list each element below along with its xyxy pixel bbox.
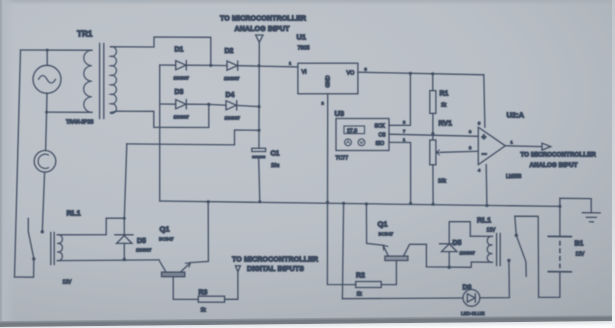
wire C1 bottom lead [259,159,260,202]
svg-text:DIGITAL INPUTS: DIGITAL INPUTS [247,266,304,273]
svg-text:ANALOG INPUT: ANALOG INPUT [530,162,578,169]
svg-text:Q1: Q1 [378,220,388,229]
wire main ground rail [160,201,560,206]
svg-text:D5: D5 [137,238,146,245]
svg-text:TO MICROCONTROLLER: TO MICROCONTROLLER [220,16,306,23]
node rail C1 [258,200,261,203]
potentiometer RV1 [430,121,479,205]
svg-text:1N4007: 1N4007 [174,115,190,120]
node D5 right anode junction [448,266,451,269]
svg-text:8: 8 [478,121,481,126]
diode D4 [209,92,259,121]
diode D1 [160,47,211,81]
node SCK rail junction [409,72,412,75]
svg-text:1N4007: 1N4007 [136,248,152,253]
sensor U3 TC77 [335,109,407,162]
svg-text:D4: D4 [226,92,235,99]
node C1 top junction [257,129,260,132]
svg-text:D2: D2 [225,48,234,55]
wire AC source top stub [46,50,48,65]
svg-text:SCK: SCK [375,124,386,130]
svg-text:1N4007: 1N4007 [225,116,241,121]
wire CT lower lead [42,172,44,232]
resistor R1 [430,74,449,134]
svg-text:1k: 1k [441,103,447,109]
svg-text:Q1: Q1 [160,225,170,234]
wire CT upper lead [46,112,47,151]
svg-text:RL1: RL1 [67,209,81,218]
svg-text:2: 2 [322,101,325,106]
node contact bottom [32,257,35,260]
svg-text:+: + [482,133,487,142]
svg-text:1k: 1k [201,308,207,314]
wire D6 bottom run [342,297,463,300]
svg-text:12V: 12V [63,280,73,286]
svg-text:U2:A: U2:A [507,111,525,120]
svg-text:R1: R1 [440,91,449,98]
node bridge plus bottom [257,105,260,108]
node rail emitter left [207,200,210,203]
terminal to microcontroller analog input (top) [256,35,263,42]
wire +5V rail [358,72,484,75]
svg-text:TO MICROCONTROLLER: TO MICROCONTROLLER [521,152,597,159]
svg-text:VO: VO [347,71,355,77]
relay contact blade (RL1 pole, open) [28,218,34,259]
svg-text:RL1: RL1 [477,216,491,225]
transformer TR1 primary winding [84,50,92,112]
wire bridge left vertical [159,65,161,201]
battery B1 [548,198,585,271]
resistor R3 [198,272,238,314]
svg-text:RV1: RV1 [439,121,453,128]
wire AC source bottom stub [46,93,48,112]
terminal to microcontroller digital inputs [235,266,240,272]
wire LED to switch [480,260,510,298]
wire U3 SCK to +5V [389,73,410,125]
svg-text:ANALOG INPUT: ANALOG INPUT [235,26,291,33]
svg-text:3: 3 [365,67,368,72]
node AC top junction [46,49,49,52]
capacitor C1 [252,148,280,169]
svg-text:CS: CS [379,132,387,138]
svg-text:D1: D1 [175,47,184,54]
transistor Q1 (left) [159,202,209,300]
relay RL1 right coil [470,216,500,266]
svg-text:10k: 10k [438,179,447,185]
svg-text:4: 4 [478,168,481,173]
wire relay supply vertical [124,144,127,235]
diode D2 [211,48,298,81]
svg-text:GND: GND [326,75,332,87]
ground [582,213,600,222]
svg-text:1k: 1k [357,292,363,298]
svg-text:C1: C1 [271,151,280,158]
node D3-D4 junction [207,103,210,106]
wire lower branch vertical [342,203,343,298]
svg-text:1N4007: 1N4007 [174,76,190,81]
wire contact bottom U-route [15,259,34,277]
transistor Q1 (right) [366,204,492,285]
svg-text:TR1: TR1 [77,30,93,39]
wire AC left return [15,50,21,277]
wire AC top [21,49,93,51]
svg-text:BC547: BC547 [379,232,394,238]
wire AC bottom to primary [47,111,92,113]
svg-text:7805: 7805 [298,46,310,52]
node D5 top tee [123,217,126,220]
svg-text:1: 1 [511,140,514,145]
regulator U1 7805 [289,33,368,106]
node rail opamp V- [485,204,488,207]
svg-text:R3: R3 [199,290,208,297]
node bridge plus top [257,64,260,67]
svg-text:VI: VI [302,70,307,76]
node AC bottom junction [45,111,48,114]
svg-text:TC77: TC77 [336,156,349,162]
wire secondary top staircase [111,37,211,65]
wire U1 GND down [327,94,329,203]
wire secondary bottom staircase [111,104,209,127]
svg-text:27.0: 27.0 [347,128,357,134]
svg-text:D5: D5 [453,240,462,247]
svg-text:U3: U3 [335,109,345,118]
wire C1 top lead [258,130,260,148]
svg-text:R2: R2 [356,273,365,280]
diode D5 (right flyback) [440,222,476,268]
node R1-RV1-CS junction [431,132,434,135]
node rail B1 [558,205,561,208]
svg-text:U1: U1 [297,33,307,42]
svg-text:12V: 12V [487,228,497,234]
svg-text:2: 2 [403,120,406,125]
svg-text:TO MICROCONTROLLER: TO MICROCONTROLLER [232,257,318,264]
svg-text:LM358: LM358 [506,174,522,180]
svg-text:−: − [482,149,487,159]
svg-text:D3: D3 [175,89,184,96]
AC source V1 [33,65,61,93]
wire opamp V- stub [485,165,488,206]
diode D3 [160,89,209,120]
node switch bottom contact [507,259,510,262]
node rail RV1 [432,203,435,206]
switch blade (right, open) [516,235,526,276]
svg-text:SIO: SIO [376,141,385,147]
relay RL1 left coil [51,209,159,286]
node D5 anode junction [123,258,126,261]
wire switch frame [515,216,560,297]
svg-text:2: 2 [469,145,472,150]
svg-text:1: 1 [403,137,406,142]
wire bridge plus vertical [258,42,260,130]
svg-text:12V: 12V [576,252,586,258]
svg-text:B1: B1 [575,241,584,248]
transformer TR1 core [99,44,101,119]
svg-text:7: 7 [403,129,406,134]
node rail U1 GND [326,201,329,204]
svg-text:1: 1 [289,61,292,66]
wire opamp V+ stub [484,75,485,127]
svg-text:D6: D6 [463,285,472,292]
transformer TR1 secondary winding [111,47,117,114]
wire B1 to ground branch [560,198,591,212]
wire U3 SIO to ground rail [389,142,411,203]
resistor R2 [327,202,381,297]
LED D6 [461,285,484,318]
wire U3 CS to opamp [389,134,478,136]
node D1-D2 junction [209,64,212,67]
svg-text:TRAN-2P2S: TRAN-2P2S [66,120,94,126]
svg-text:1N4007: 1N4007 [460,251,476,256]
wire C1 feed [127,130,259,145]
svg-text:3: 3 [469,129,472,134]
node rail lower branch [342,202,345,205]
node switch top contact [515,234,518,237]
svg-text:1N4007: 1N4007 [224,76,240,81]
node contact top [41,230,44,233]
wire opamp output [505,145,542,148]
op-amp U2:A [469,111,525,181]
diode D5 (left flyback) [115,235,152,260]
node R1 rail junction [431,72,434,75]
node rail SIO [409,202,412,205]
node rail emitter right [365,202,368,205]
current transformer CT [34,151,56,173]
svg-text:BC547: BC547 [159,237,174,243]
svg-text:10u: 10u [271,163,280,169]
terminal to microcontroller analog input (right) [542,143,551,150]
